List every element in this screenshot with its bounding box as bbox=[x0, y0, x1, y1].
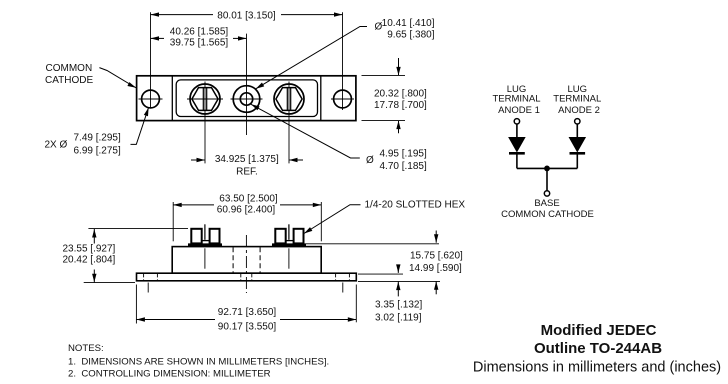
svg-text:92.71 [3.650]: 92.71 [3.650] bbox=[218, 307, 277, 318]
svg-text:Outline TO-244AB: Outline TO-244AB bbox=[534, 340, 662, 357]
svg-text:17.78 [.700]: 17.78 [.700] bbox=[374, 100, 427, 111]
svg-text:60.96 [2.400]: 60.96 [2.400] bbox=[217, 205, 276, 216]
svg-text:TERMINAL: TERMINAL bbox=[553, 94, 601, 105]
svg-text:TERMINAL: TERMINAL bbox=[492, 94, 540, 105]
svg-text:2X Ø: 2X Ø bbox=[45, 140, 68, 151]
svg-text:COMMON CATHODE: COMMON CATHODE bbox=[501, 209, 594, 220]
svg-text:10.41 [.410]: 10.41 [.410] bbox=[382, 18, 435, 29]
svg-text:34.925 [1.375]: 34.925 [1.375] bbox=[215, 154, 279, 165]
svg-text:15.75 [.620]: 15.75 [.620] bbox=[410, 251, 463, 262]
svg-text:39.75 [1.565]: 39.75 [1.565] bbox=[170, 38, 229, 49]
svg-text:NOTES:: NOTES: bbox=[68, 343, 104, 354]
svg-text:9.65 [.380]: 9.65 [.380] bbox=[387, 29, 434, 40]
svg-text:6.99 [.275]: 6.99 [.275] bbox=[74, 146, 121, 157]
svg-text:2. CONTROLLING DIMENSION: MIL: 2. CONTROLLING DIMENSION: MILLIMETER bbox=[68, 369, 271, 380]
svg-text:63.50 [2.500]: 63.50 [2.500] bbox=[219, 194, 278, 205]
svg-text:90.17 [3.550]: 90.17 [3.550] bbox=[218, 322, 277, 333]
svg-text:ANODE 2: ANODE 2 bbox=[558, 105, 600, 116]
svg-text:40.26 [1.585]: 40.26 [1.585] bbox=[170, 27, 229, 38]
svg-text:BASE: BASE bbox=[534, 198, 559, 209]
svg-text:Ø: Ø bbox=[366, 155, 374, 166]
svg-text:23.55 [.927]: 23.55 [.927] bbox=[63, 244, 116, 255]
svg-text:1. DIMENSIONS ARE SHOWN IN MI: 1. DIMENSIONS ARE SHOWN IN MILLIMETERS [… bbox=[68, 357, 329, 368]
svg-text:4.95 [.195]: 4.95 [.195] bbox=[380, 149, 427, 160]
svg-text:COMMON: COMMON bbox=[46, 63, 93, 74]
svg-text:20.42 [.804]: 20.42 [.804] bbox=[63, 255, 116, 266]
svg-text:3.02 [.119]: 3.02 [.119] bbox=[375, 313, 422, 324]
svg-text:REF.: REF. bbox=[236, 167, 258, 178]
svg-text:1/4-20 SLOTTED HEX: 1/4-20 SLOTTED HEX bbox=[365, 200, 466, 211]
svg-text:80.01 [3.150]: 80.01 [3.150] bbox=[217, 11, 276, 22]
svg-text:3.35 [.132]: 3.35 [.132] bbox=[375, 300, 422, 311]
svg-text:20.32 [.800]: 20.32 [.800] bbox=[374, 89, 427, 100]
svg-text:Dimensions in millimeters and: Dimensions in millimeters and (inches) bbox=[473, 360, 721, 376]
svg-text:CATHODE: CATHODE bbox=[45, 75, 93, 86]
svg-text:14.99 [.590]: 14.99 [.590] bbox=[409, 263, 462, 274]
svg-text:Modified JEDEC: Modified JEDEC bbox=[541, 322, 657, 339]
svg-text:ANODE 1: ANODE 1 bbox=[498, 105, 540, 116]
svg-text:4.70 [.185]: 4.70 [.185] bbox=[380, 161, 427, 172]
svg-text:7.49 [.295]: 7.49 [.295] bbox=[74, 133, 121, 144]
